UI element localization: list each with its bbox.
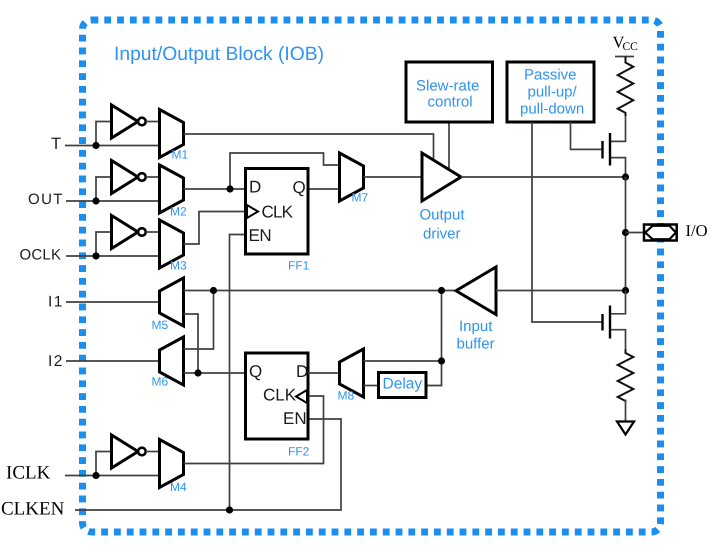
- svg-text:Output: Output: [420, 207, 466, 224]
- svg-text:Input: Input: [459, 318, 493, 335]
- svg-text:D: D: [249, 178, 261, 197]
- node pad junction: [622, 229, 629, 236]
- svg-text:Q: Q: [293, 178, 306, 197]
- svg-text:FF2: FF2: [288, 445, 310, 459]
- wire inverter ICLK output: [146, 451, 160, 453]
- svg-text:M4: M4: [170, 480, 187, 494]
- output driver: [422, 153, 461, 201]
- svg-text:I/O: I/O: [686, 221, 708, 240]
- inverter T: [112, 105, 139, 138]
- wire rail to pad: [625, 177, 627, 291]
- delay box: [379, 373, 427, 398]
- svg-text:D: D: [296, 362, 308, 381]
- mux M2: [160, 165, 184, 213]
- svg-text:Passive: Passive: [524, 67, 577, 84]
- mux M8: [340, 349, 364, 397]
- wire M8 bottom input from Delay: [364, 385, 379, 387]
- wire inverter T output: [146, 121, 160, 123]
- node M8 top junction: [438, 357, 445, 364]
- svg-text:OCLK: OCLK: [20, 247, 62, 264]
- wire FF1 D row branch up to M7 top input: [230, 153, 340, 189]
- svg-text:M6: M6: [152, 375, 169, 389]
- node FF1 D junction: [226, 185, 233, 192]
- wire M2 output to FF1 D: [184, 188, 246, 190]
- svg-text:ICLK: ICLK: [6, 463, 51, 484]
- node T junction: [92, 142, 99, 149]
- resistor R2 pull-down: [618, 350, 634, 402]
- wire FF2 Q row to M6 bottom input: [184, 372, 246, 374]
- svg-text:I2: I2: [48, 353, 64, 370]
- svg-text:OUT: OUT: [28, 191, 64, 208]
- flip-flop FF1: [246, 169, 309, 255]
- svg-text:M7: M7: [352, 191, 369, 205]
- inverter OCLK: [112, 216, 139, 249]
- node buffer row junction M6 branch: [210, 287, 217, 294]
- inverter OUT: [112, 161, 139, 194]
- wire FF1 Q to M7 bottom input: [308, 188, 340, 190]
- svg-text:M1: M1: [172, 148, 189, 162]
- mux M4: [160, 440, 184, 488]
- node Q row junction: [194, 369, 201, 376]
- I/O pad: [644, 225, 677, 241]
- wire OCLK inverter stub: [96, 232, 112, 256]
- transistor pull-up NMOS: [610, 116, 626, 177]
- wire slew-rate control to output driver: [448, 122, 450, 170]
- node CLKEN junction: [226, 506, 233, 513]
- wire inverter OUT output: [146, 176, 160, 178]
- svg-text:T: T: [51, 135, 61, 153]
- mux M5: [160, 278, 184, 326]
- svg-text:buffer: buffer: [457, 336, 495, 353]
- wire M4 output to FF2 CLK: [184, 396, 324, 464]
- svg-text:driver: driver: [423, 226, 461, 243]
- inverter ICLK: [112, 435, 139, 468]
- slew-rate control box: [406, 62, 493, 122]
- wire passive box to pull-down gate: [532, 122, 602, 322]
- svg-text:Delay: Delay: [383, 376, 423, 393]
- resistor R1 pull-up: [618, 57, 634, 117]
- node buffer rail junction: [622, 287, 629, 294]
- wire I2 row from M6 output: [66, 360, 160, 362]
- wire M8 top input: [364, 360, 442, 362]
- wire input buffer output row: [184, 290, 457, 292]
- svg-text:I1: I1: [48, 294, 64, 311]
- wire ICLK inverter stub: [96, 452, 112, 476]
- passive pull-up/pull-down box: [507, 62, 594, 122]
- wire M1 output to output driver tri-state: [184, 134, 434, 161]
- wire input buffer input: [496, 290, 626, 292]
- wire OCLK input row: [66, 255, 160, 257]
- node ICLK junction: [92, 472, 99, 479]
- svg-text:EN: EN: [249, 226, 272, 245]
- svg-text:M3: M3: [170, 259, 187, 273]
- svg-text:control: control: [428, 94, 473, 111]
- svg-text:M8: M8: [338, 389, 355, 403]
- wire FF1 EN down to CLKEN row: [230, 235, 246, 511]
- svg-text:CC: CC: [623, 41, 639, 53]
- wire resistor R2 to ground: [625, 400, 627, 421]
- wire T inverter stub: [96, 122, 112, 146]
- wire M7 output to output driver: [364, 176, 423, 178]
- svg-text:Q: Q: [249, 362, 262, 381]
- wire M6 top input branch from input buffer row: [184, 291, 214, 350]
- wire OUT inverter stub: [96, 177, 112, 201]
- svg-text:Input/Output Block (IOB): Input/Output Block (IOB): [114, 44, 324, 65]
- svg-text:M5: M5: [152, 318, 169, 332]
- wire OUT input row: [66, 200, 160, 202]
- input buffer: [456, 267, 496, 315]
- wire I1 row from M5 output: [66, 301, 160, 303]
- mux M7: [340, 153, 364, 201]
- mux M1: [160, 110, 184, 158]
- node OCLK junction: [92, 252, 99, 259]
- svg-text:pull-up/: pull-up/: [528, 84, 578, 101]
- wire M3 output to FF1 CLK: [184, 212, 246, 245]
- wire pad stub: [626, 232, 645, 234]
- mux M6: [160, 337, 184, 385]
- wire inverter OCLK output: [146, 231, 160, 233]
- svg-text:CLKEN: CLKEN: [1, 499, 65, 520]
- wire M8 output to FF2 D: [308, 372, 340, 374]
- wire CLKEN row: [75, 419, 341, 510]
- node output rail junction: [622, 173, 629, 180]
- svg-text:Slew-rate: Slew-rate: [416, 78, 479, 95]
- IOB dashed boundary: [83, 20, 661, 532]
- wire output driver to pad rail: [461, 176, 626, 178]
- svg-text:FF1: FF1: [288, 259, 310, 273]
- wire M5 bottom input branch from Q row: [184, 314, 199, 373]
- node buffer row junction Delay branch: [438, 287, 445, 294]
- svg-text:CLK: CLK: [262, 203, 294, 222]
- node OUT junction: [92, 197, 99, 204]
- flip-flop FF2: [246, 353, 309, 439]
- wire T input row: [65, 145, 160, 147]
- mux M3: [160, 220, 184, 268]
- wire ICLK input row: [65, 475, 160, 477]
- svg-text:CLK: CLK: [263, 386, 297, 405]
- svg-text:M2: M2: [170, 205, 187, 219]
- ground: [617, 422, 634, 435]
- wire passive box to pull-up gate: [571, 122, 602, 149]
- svg-text:pull-down: pull-down: [520, 101, 584, 118]
- transistor pull-down NMOS: [610, 291, 626, 350]
- wire Delay input from buffer branch: [426, 291, 442, 386]
- svg-text:EN: EN: [283, 409, 307, 428]
